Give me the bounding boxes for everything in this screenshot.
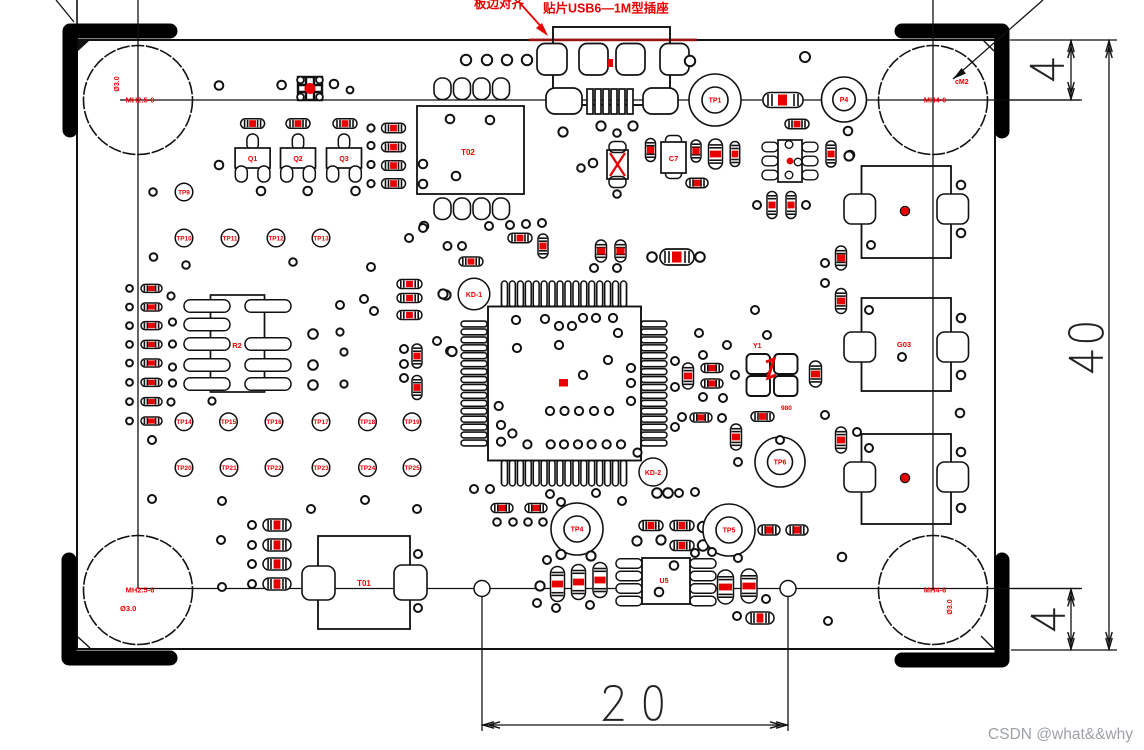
extension line 20-dim right [787, 595, 789, 731]
relay K3 right pad [937, 462, 969, 492]
resistor R27 [596, 240, 607, 262]
vias right middle [678, 306, 771, 422]
resistor R46 [701, 364, 723, 373]
transformer T2 bottom pads [434, 198, 510, 220]
mounting hole MH2 [879, 46, 988, 155]
IC U5 (SOIC-8) left pins [616, 559, 642, 606]
MCU U2 label [559, 379, 568, 387]
resistor network RN1 left pads [184, 300, 230, 391]
test point TP9 [175, 183, 193, 201]
vias near U3 [753, 127, 854, 209]
resistor R16 [382, 161, 406, 171]
vias below R65-R66 [493, 518, 547, 526]
board left edge extension line [76, 0, 78, 40]
resistor R61 [263, 519, 291, 531]
svg-text:TP6: TP6 [774, 460, 787, 467]
vias near TP4 [543, 490, 596, 564]
svg-text:TP12: TP12 [268, 235, 284, 242]
MCU U2 left pins [461, 321, 487, 446]
resistor R14 [382, 123, 406, 133]
svg-text:TP24: TP24 [360, 465, 376, 472]
resistor R32 [141, 303, 162, 311]
resistor R19 [646, 139, 656, 162]
svg-text:KD-1: KD-1 [466, 292, 482, 299]
resistor R22 [785, 119, 809, 129]
diode D4 [572, 565, 586, 600]
fiducial KD-2 [639, 458, 667, 486]
svg-text:Q1: Q1 [248, 156, 257, 163]
resistor R38 [141, 417, 162, 425]
MCU U2 pin underlays [500, 283, 628, 306]
resistor R31 [141, 284, 162, 292]
transistor Q1 [235, 134, 270, 182]
fiducial KD-1 [458, 278, 490, 310]
vias around X1 [589, 129, 621, 198]
test point TP4 [551, 503, 603, 555]
mounting hole MH4 [879, 536, 988, 645]
corner crop mark bottom-left [69, 560, 170, 658]
test point row2 #4 [312, 413, 330, 431]
datum hole right (20 dim) [780, 581, 796, 597]
svg-text:TP11: TP11 [223, 235, 238, 242]
vias near R50-R52 [821, 151, 861, 436]
vias near Q1-Q3 [215, 80, 360, 196]
vias near R67-R69 [632, 522, 708, 557]
resistor R56 [751, 412, 774, 422]
svg-text:Ø3.0: Ø3.0 [114, 76, 121, 91]
transformer T1 right pad [394, 565, 427, 600]
svg-text:TP13: TP13 [313, 235, 329, 242]
svg-text:TP22: TP22 [266, 465, 282, 472]
vias inside relays [865, 241, 906, 452]
resistor R62 [263, 539, 291, 551]
test point row3 #1 [175, 459, 193, 477]
resistor R18 (wide) [763, 93, 803, 108]
resistor R42 [397, 294, 422, 303]
resistor R24 [767, 192, 777, 219]
relay K2 left pad [844, 332, 876, 362]
svg-text:P4: P4 [840, 97, 849, 104]
resistor R21 [730, 142, 740, 167]
svg-text:Q3: Q3 [339, 156, 348, 163]
svg-text:980: 980 [781, 405, 792, 412]
svg-text:TP10: TP10 [176, 235, 192, 242]
vias left of R31-R38 [126, 285, 133, 424]
resistor R50 [836, 246, 847, 270]
resistor R47 [701, 379, 723, 388]
svg-text:TP18: TP18 [360, 419, 376, 426]
transformer T1 left pad [302, 566, 335, 600]
resistor R70 [746, 612, 774, 624]
svg-text:MH4-6: MH4-6 [924, 586, 947, 595]
corner chamfer bottom-right [981, 636, 994, 649]
resistor R44 [459, 257, 483, 266]
resistor R39 [412, 344, 422, 368]
svg-text:U5: U5 [660, 578, 669, 585]
svg-text:TP1: TP1 [709, 98, 722, 105]
svg-text:T02: T02 [461, 148, 475, 157]
resistor R25 [786, 192, 796, 219]
via right of J1 [685, 56, 695, 66]
transformer T1 body [318, 536, 410, 629]
relay K3 left pad [844, 462, 876, 492]
test point row3 #6 [403, 459, 421, 477]
svg-text:TP23: TP23 [313, 465, 329, 472]
connector J1 shield pad left [546, 88, 582, 114]
resistor R30 [538, 234, 548, 258]
resistor R12 [286, 119, 310, 129]
test point TP5 [703, 504, 755, 556]
svg-text:cM2: cM2 [955, 79, 969, 86]
dimension text 40 [1069, 324, 1103, 372]
vias outside U2 left [438, 289, 456, 356]
corner crop mark bottom-right [902, 560, 1002, 660]
svg-text:TP16: TP16 [266, 419, 282, 426]
resistor R11 [241, 119, 265, 129]
resistor R45 [683, 363, 694, 389]
mounting hole MH1 [84, 46, 193, 155]
vias above U2 [485, 219, 546, 230]
resistor R55 [731, 424, 742, 450]
board outline [77, 40, 995, 649]
relay K2 right pad [937, 332, 969, 362]
diode D2 [661, 136, 686, 179]
centerline horizontal through bottom mounting holes [138, 588, 1080, 590]
vias inside U5 [655, 561, 679, 596]
resistor R28 [615, 240, 626, 262]
vias left of J1 [461, 55, 532, 65]
resistor R51 [836, 289, 847, 314]
resistor R49 [758, 525, 780, 535]
resistor R43 [397, 311, 422, 320]
IC U5 body [642, 558, 690, 604]
test point row2 #2 [220, 413, 238, 431]
vias inside U2 [495, 314, 642, 457]
resistor R15 [382, 142, 406, 152]
svg-text:贴片USB6—1M型插座: 贴片USB6—1M型插座 [543, 1, 669, 16]
test point row1 #2 [221, 229, 239, 247]
resistor R23 [826, 141, 836, 167]
svg-text:Q2: Q2 [293, 156, 302, 163]
svg-text:TP17: TP17 [313, 419, 329, 426]
resistor R65 [491, 504, 513, 513]
resistor R17 [382, 179, 406, 189]
extension line top hole center right [1010, 99, 1082, 101]
centerline vertical through left mounting holes [137, 0, 139, 589]
mounting hole MH3 [84, 536, 193, 645]
svg-text:TP25: TP25 [404, 465, 420, 472]
vias left of R61-R64 [248, 521, 256, 588]
centerline horizontal through top mounting holes [120, 99, 1080, 101]
via near TP5 [734, 554, 742, 562]
svg-text:MH2.5-6: MH2.5-6 [126, 586, 155, 595]
svg-text:Ø3.0: Ø3.0 [120, 604, 136, 613]
resistor R36 [141, 378, 162, 386]
resistor R54 [810, 361, 822, 387]
red leader arrow to board edge [519, 2, 548, 36]
connector J1 shield pad right [643, 88, 678, 114]
corner crop mark top-right [902, 31, 1002, 131]
resistor R48 [690, 413, 712, 422]
relay K2 body [862, 298, 952, 391]
centerline vertical through right mounting holes [932, 0, 934, 590]
dimension text 4 top [1030, 58, 1064, 79]
dimension 20 bottom [482, 722, 788, 728]
vias near R55 [734, 458, 832, 625]
relay K1 body [862, 166, 952, 258]
vias left of TP grid [149, 188, 297, 269]
dimension text 20 [604, 686, 662, 720]
svg-text:KD-2: KD-2 [645, 470, 661, 477]
svg-text:Y1: Y1 [753, 343, 762, 350]
resistor network RN1 right pads [245, 300, 291, 391]
dimension 4 bottom right [1068, 589, 1074, 651]
dimension text 4 bottom [1031, 608, 1065, 629]
MCU U2 bottom pins [502, 460, 627, 486]
MCU U2 top pins [502, 281, 627, 307]
vias near T1 [218, 505, 422, 612]
test point row2 #5 [359, 413, 377, 431]
test point row1 #3 [267, 229, 285, 247]
red highlight on board top edge [529, 39, 697, 42]
resistor R20 [691, 140, 701, 162]
svg-text:TP15: TP15 [221, 419, 237, 426]
extension line bottom edge right [1011, 649, 1117, 651]
MCU U2 body [488, 307, 641, 461]
resistor R37 [141, 398, 162, 406]
relay K1 left pad [844, 194, 876, 224]
extension line 20-dim left [481, 595, 483, 731]
test point row1 #4 [312, 229, 330, 247]
corner crop mark top-left [70, 31, 170, 130]
corner chamfer bottom-left [78, 637, 90, 648]
via above R18 [800, 52, 810, 62]
svg-text:TP19: TP19 [404, 419, 420, 426]
vias bottom-right cluster [708, 548, 770, 620]
connector J1 pin pads [537, 44, 689, 76]
svg-text:C7: C7 [669, 154, 679, 163]
diode D6 [718, 570, 734, 604]
crystal Y1 [747, 354, 798, 396]
resistor network RN1 body [211, 295, 265, 392]
resistor R40 [412, 376, 422, 400]
vias below R27 [590, 264, 621, 272]
svg-text:TP4: TP4 [571, 527, 584, 534]
extension line top edge right [1010, 39, 1117, 41]
connector J1 red pin1 mark [608, 59, 613, 67]
resistor R41 [397, 280, 422, 289]
regulator U3 (SOT-23-6) [762, 140, 818, 182]
resistor R69 [670, 541, 694, 551]
capacitor C8 [709, 139, 723, 169]
svg-text:TP14: TP14 [176, 419, 192, 426]
test point row3 #3 [265, 459, 283, 477]
test point row2 #1 [175, 413, 193, 431]
relay K3 body [862, 434, 952, 524]
diode D3 [551, 567, 565, 602]
dimension 4 top right [1068, 40, 1074, 100]
resistor R52 [836, 427, 847, 453]
test point row3 #5 [359, 459, 377, 477]
transistor Q3 [327, 134, 362, 182]
corner chamfer top-left [77, 40, 90, 52]
vias upper middle [558, 121, 637, 171]
svg-text:MH2.5-6: MH2.5-6 [126, 96, 155, 105]
vias near R41-R44 [405, 224, 466, 300]
IC U5 right pins [690, 559, 716, 606]
leader line to top-left corner [56, 0, 74, 22]
vias right of R31-R38 [167, 292, 215, 405]
resistor R35 [141, 359, 162, 367]
resistor R68 [670, 521, 694, 531]
test point row1 #1 [175, 229, 193, 247]
vias right of U2 [671, 357, 679, 431]
test point row2 #6 [403, 413, 421, 431]
crystal X1 [607, 142, 628, 188]
vias near D3-D5 [533, 581, 594, 612]
resistor R63 [263, 558, 291, 570]
transformer T2 top pads [434, 78, 510, 100]
transistor Q2 [281, 134, 316, 182]
svg-text:R2: R2 [232, 341, 242, 350]
corner chamfer top-right [983, 40, 994, 51]
connector J1 outline [553, 27, 670, 105]
svg-text:TP9: TP9 [178, 189, 190, 196]
svg-text:TP5: TP5 [723, 528, 736, 535]
svg-text:CSDN @what&&why: CSDN @what&&why [988, 726, 1133, 743]
connector J1 through-hole pins [587, 89, 633, 114]
svg-text:TP21: TP21 [221, 465, 237, 472]
test point TP1 [689, 74, 741, 126]
vias bottom-left area [148, 436, 369, 544]
resistor R64 [263, 578, 291, 590]
resistor R13 [333, 119, 357, 129]
svg-text:T01: T01 [357, 579, 371, 588]
relay K1 label [901, 207, 910, 216]
MCU U2 right pins [641, 321, 667, 446]
diode D7 [741, 569, 757, 603]
test point TP6 [755, 437, 805, 487]
vias left of R14-R17 [367, 124, 374, 187]
crosshatch pad array P1 [297, 77, 323, 101]
extension line bottom hole center right [1011, 588, 1082, 590]
vias inside T2 [419, 115, 495, 231]
dimension 40 right [1106, 40, 1112, 650]
datum hole left (20 dim) [474, 581, 490, 597]
resistor R67 [639, 521, 663, 531]
resistor R34 [141, 340, 162, 348]
resistor R53 [786, 525, 808, 535]
vias mid-left grid [308, 263, 454, 390]
transformer T2 body [417, 106, 524, 194]
inductor L1 pad [822, 77, 867, 122]
resistor R66 [525, 504, 547, 513]
vias right column [838, 181, 966, 562]
resistor R29 [508, 233, 532, 243]
vias beside L2 [647, 252, 705, 262]
svg-text:TP20: TP20 [176, 465, 192, 472]
leader arrow to mounting hole MH2 [953, 0, 1043, 79]
svg-text:MH4-6: MH4-6 [924, 96, 947, 105]
test point row3 #4 [312, 459, 330, 477]
svg-text:板边对齐: 板边对齐 [474, 0, 525, 11]
diode D5 [593, 563, 607, 598]
relay K1 right pad [937, 194, 969, 224]
test point row3 #2 [220, 459, 238, 477]
relay K3 label [901, 474, 910, 483]
svg-text:G03: G03 [897, 340, 911, 349]
resistor R26 [686, 178, 708, 188]
resistor R33 [141, 322, 162, 330]
svg-text:Ø3.0: Ø3.0 [947, 599, 954, 614]
via above TP6 [776, 436, 784, 444]
test point row2 #3 [265, 413, 283, 431]
inductor L2 [660, 249, 694, 265]
vias below U2 [470, 485, 699, 505]
